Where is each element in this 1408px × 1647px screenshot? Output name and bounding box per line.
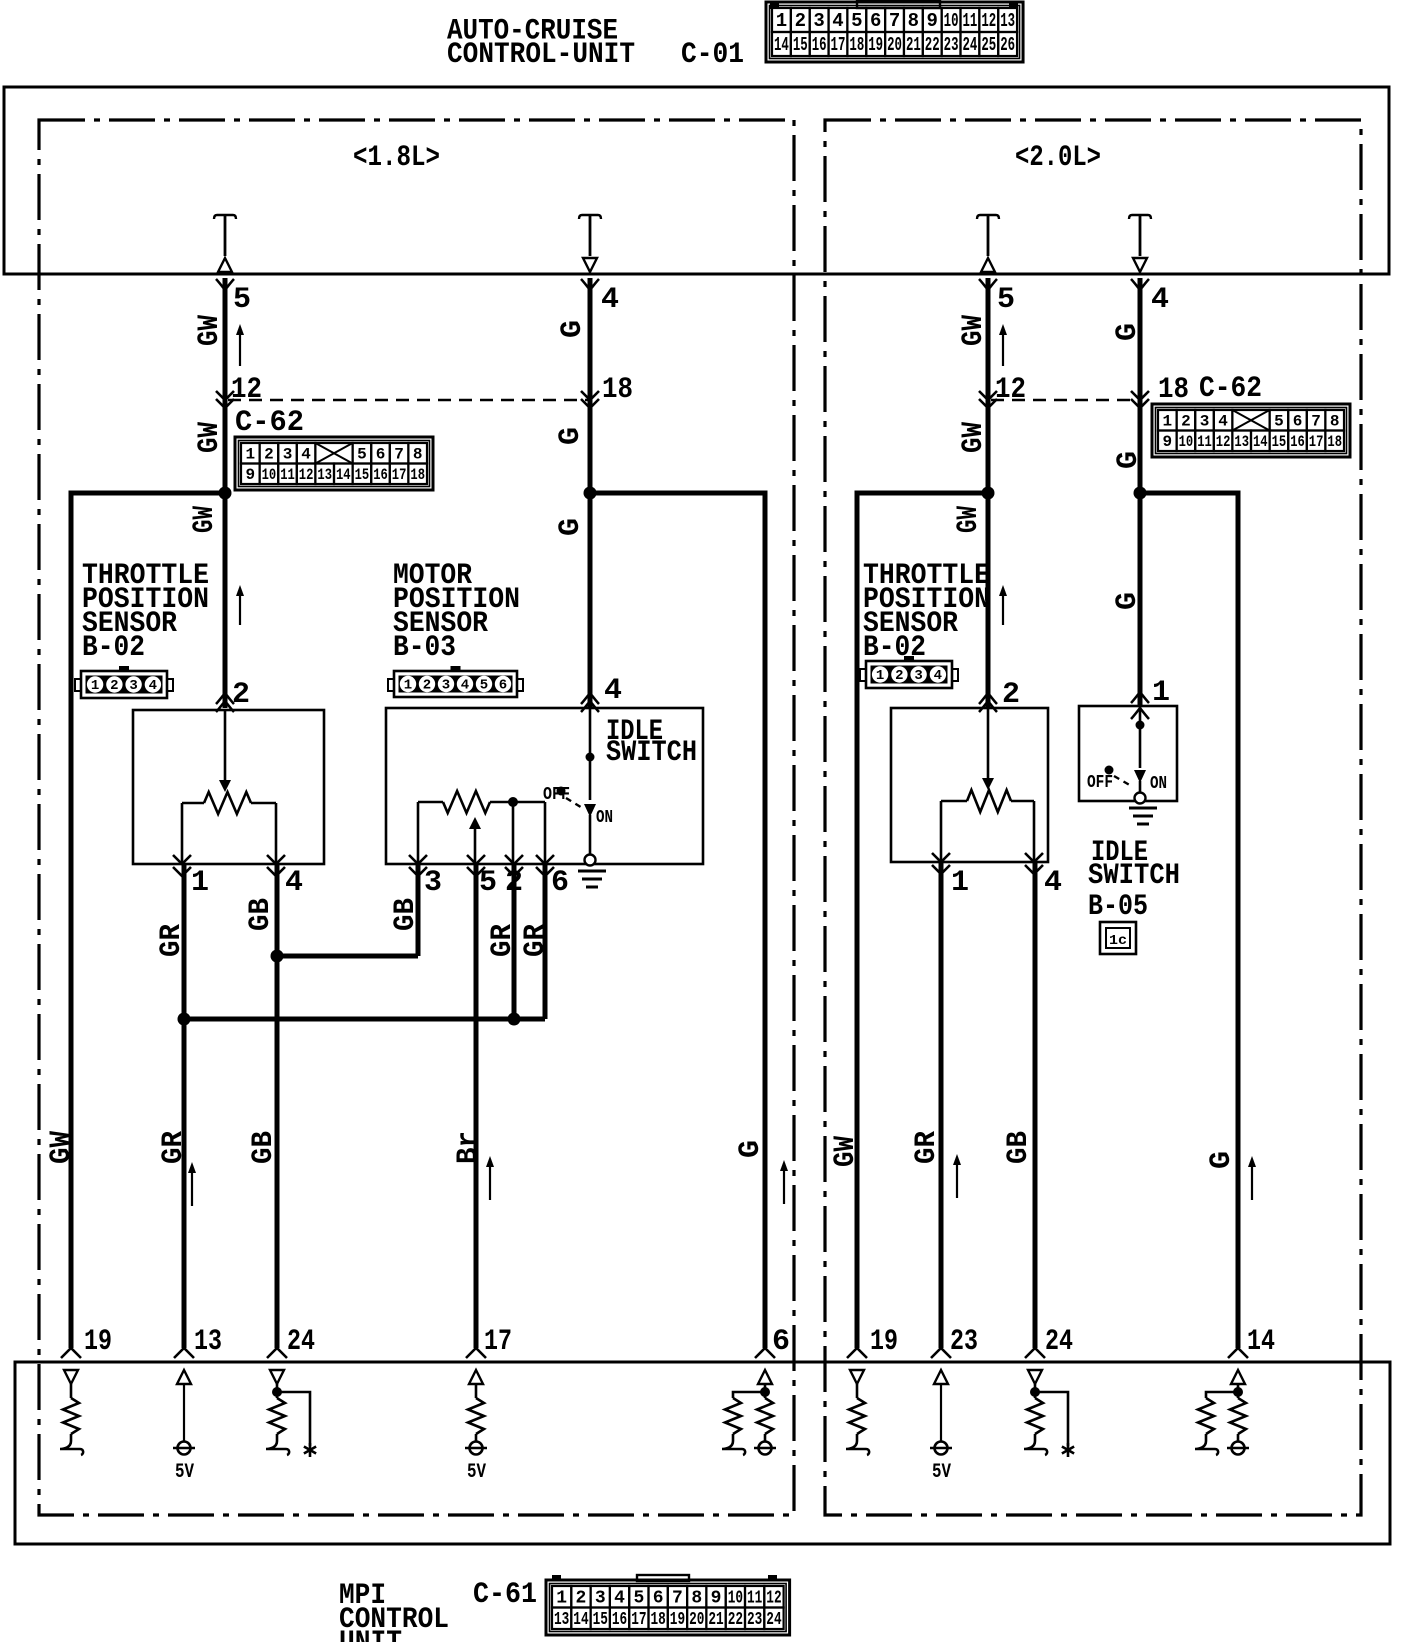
signal arrow up on G (2.0L) bbox=[1251, 1164, 1253, 1200]
svg-text:1: 1 bbox=[1162, 412, 1172, 430]
wiper arrow B-03 (1.8L) bbox=[469, 817, 481, 829]
svg-text:9: 9 bbox=[1162, 433, 1172, 451]
signal arrow up on GR (2.0L) bbox=[956, 1162, 958, 1198]
double chevron at C-62 pin12 (2.0L) bbox=[979, 391, 997, 400]
double chevron B-03 pin2 (1.8L) bbox=[505, 855, 523, 864]
svg-text:GW: GW bbox=[45, 1131, 79, 1164]
svg-text:GR: GR bbox=[157, 1131, 191, 1164]
MPI pin 24 with resistor and branch (2.0L) bbox=[1025, 1348, 1045, 1358]
idle switch lever dashes (2.0L) bbox=[1114, 776, 1133, 787]
svg-text:17: 17 bbox=[1309, 433, 1324, 451]
svg-text:GW: GW bbox=[957, 422, 991, 453]
svg-text:3: 3 bbox=[424, 866, 442, 900]
svg-text:6: 6 bbox=[1293, 412, 1303, 430]
svg-text:7: 7 bbox=[394, 445, 404, 463]
svg-text:5: 5 bbox=[633, 1589, 644, 1609]
svg-text:G: G bbox=[554, 427, 588, 445]
svg-text:19: 19 bbox=[84, 1325, 112, 1359]
svg-text:4: 4 bbox=[1218, 412, 1228, 430]
svg-text:B-05: B-05 bbox=[1088, 890, 1148, 924]
svg-text:GW: GW bbox=[188, 506, 222, 533]
connector B-02 pinout (1.8L) bbox=[81, 671, 167, 698]
svg-text:17: 17 bbox=[831, 34, 846, 56]
svg-text:5: 5 bbox=[479, 866, 497, 900]
double chevron B-03 pin5 (1.8L) bbox=[467, 855, 485, 864]
svg-text:3: 3 bbox=[442, 678, 450, 694]
svg-text:2: 2 bbox=[232, 678, 250, 712]
svg-text:6: 6 bbox=[870, 10, 881, 32]
svg-text:CONTROL-UNIT: CONTROL-UNIT bbox=[447, 38, 635, 72]
svg-text:21: 21 bbox=[906, 34, 921, 56]
connector C-61 pinout bbox=[546, 1580, 790, 1635]
wire GB pin4 to MPI pin24 (2.0L) bbox=[1033, 862, 1038, 1348]
svg-text:5: 5 bbox=[480, 678, 488, 694]
wire GW pin5 to C-62 (1.8L) bbox=[223, 278, 228, 400]
svg-text:26: 26 bbox=[1000, 34, 1015, 56]
svg-text:15: 15 bbox=[593, 1610, 608, 1630]
svg-text:1: 1 bbox=[951, 866, 969, 900]
double chevron B-02 pin2 (1.8L) bbox=[216, 693, 234, 704]
svg-text:G: G bbox=[1111, 323, 1145, 341]
double chevron at C-62 pin12 (1.8L) bbox=[216, 391, 234, 400]
auto-cruise control unit box bbox=[4, 87, 1389, 274]
double chevron B-03 pin4 (1.8L) bbox=[581, 693, 599, 704]
wire pot left lead (1.8L) bbox=[181, 803, 184, 864]
svg-text:GB: GB bbox=[389, 898, 423, 931]
svg-text:13: 13 bbox=[1000, 10, 1015, 32]
svg-text:7: 7 bbox=[1311, 412, 1321, 430]
wire G junction to B-03 pin4 (1.8L) bbox=[588, 493, 593, 708]
junction dot GW (1.8L) bbox=[219, 487, 232, 500]
wire G branch to MPI pin6 (1.8L) bbox=[590, 493, 765, 1348]
svg-text:4: 4 bbox=[601, 283, 619, 317]
svg-text:12: 12 bbox=[995, 373, 1026, 407]
svg-text:11: 11 bbox=[747, 1589, 762, 1609]
svg-text:17: 17 bbox=[392, 466, 407, 484]
double chevron at C-62 pin18 (1.8L) bbox=[581, 391, 599, 400]
svg-text:23: 23 bbox=[747, 1610, 762, 1630]
svg-text:15: 15 bbox=[793, 34, 808, 56]
MPI pin 24 with resistor and branch (1.8L) bbox=[267, 1348, 287, 1358]
connector C-62 pinout (2.0L) bbox=[1152, 404, 1350, 457]
svg-text:15: 15 bbox=[355, 466, 370, 484]
svg-text:18: 18 bbox=[602, 373, 633, 407]
svg-text:12: 12 bbox=[299, 466, 314, 484]
svg-text:2: 2 bbox=[110, 678, 118, 694]
svg-text:2: 2 bbox=[795, 10, 806, 32]
svg-text:GR: GR bbox=[486, 924, 520, 957]
svg-text:1: 1 bbox=[245, 445, 255, 463]
double chevron B-03 pin6 (1.8L) bbox=[536, 855, 554, 864]
connector B-05 pinout (2.0L) bbox=[1100, 922, 1136, 954]
svg-text:3: 3 bbox=[129, 678, 137, 694]
double chevron B-02 pin4 (2.0L) bbox=[1025, 853, 1043, 862]
wire GB junction to MPI pin24 (1.8L) bbox=[275, 956, 280, 1348]
svg-text:24: 24 bbox=[287, 1325, 315, 1359]
throttle position sensor box B-02 (1.8L) bbox=[133, 710, 324, 864]
signal arrow up on GR (1.8L) bbox=[191, 1170, 193, 1206]
svg-text:14: 14 bbox=[573, 1610, 588, 1630]
svg-text:20: 20 bbox=[887, 34, 902, 56]
idle switch OFF contact (1.8L) bbox=[557, 787, 566, 796]
svg-text:13: 13 bbox=[554, 1610, 569, 1630]
connector chevron pin5 (1.8L) bbox=[216, 279, 234, 290]
svg-text:4: 4 bbox=[301, 445, 311, 463]
svg-text:2: 2 bbox=[576, 1589, 587, 1609]
svg-text:GW: GW bbox=[193, 422, 227, 453]
svg-text:11: 11 bbox=[963, 10, 978, 32]
svg-text:10: 10 bbox=[728, 1589, 743, 1609]
svg-text:2: 2 bbox=[423, 678, 431, 694]
double chevron B-02 pin1 (1.8L) bbox=[173, 855, 191, 864]
wire Br pin5 to MPI pin17 (1.8L) bbox=[474, 864, 479, 1348]
svg-text:6: 6 bbox=[551, 866, 569, 900]
svg-text:16: 16 bbox=[812, 34, 827, 56]
junction dot pot pin2 (1.8L) bbox=[508, 797, 518, 807]
double chevron B-02 pin4 (1.8L) bbox=[267, 855, 285, 864]
svg-text:10: 10 bbox=[944, 10, 959, 32]
connector C-01 pinout bbox=[766, 2, 1023, 62]
signal arrow up on GW (1.8L) bbox=[239, 332, 241, 366]
connector B-02 pinout (2.0L) bbox=[866, 661, 952, 688]
idle switch wire to ground (2.0L) bbox=[1139, 781, 1142, 793]
svg-text:5: 5 bbox=[1274, 412, 1284, 430]
svg-text:GB: GB bbox=[244, 898, 278, 931]
svg-text:SWITCH: SWITCH bbox=[606, 736, 697, 770]
chassis ground idle switch (2.0L) bbox=[1129, 807, 1157, 810]
svg-text:B-03: B-03 bbox=[393, 631, 456, 665]
2.0L harness box bbox=[825, 120, 1361, 1515]
svg-text:23: 23 bbox=[950, 1325, 978, 1359]
svg-text:2: 2 bbox=[895, 668, 903, 684]
dashed connector line C-62 (2.0L) bbox=[991, 399, 1138, 402]
svg-text:GB: GB bbox=[247, 1131, 281, 1164]
svg-text:9: 9 bbox=[711, 1589, 722, 1609]
svg-text:5: 5 bbox=[997, 283, 1015, 317]
wire GB pin4 to junction (1.8L) bbox=[275, 864, 280, 956]
wire GR pin2 down (1.8L) bbox=[512, 864, 517, 1019]
svg-text:1: 1 bbox=[556, 1589, 567, 1609]
svg-text:18: 18 bbox=[410, 466, 425, 484]
idle switch wire upper (2.0L) bbox=[1139, 706, 1142, 768]
wire GW C-62 to junction (1.8L) bbox=[223, 400, 228, 493]
svg-text:4: 4 bbox=[614, 1589, 625, 1609]
svg-text:13: 13 bbox=[317, 466, 332, 484]
idle switch ON contact (1.8L) bbox=[584, 804, 596, 817]
svg-text:UNIT: UNIT bbox=[339, 1626, 402, 1642]
svg-text:3: 3 bbox=[914, 668, 922, 684]
svg-text:23: 23 bbox=[944, 34, 959, 56]
idle switch OFF contact (2.0L) bbox=[1105, 766, 1114, 775]
svg-text:OFF: OFF bbox=[1087, 773, 1113, 793]
svg-text:1c: 1c bbox=[1109, 933, 1127, 949]
connector chevron pin4 (2.0L) bbox=[1131, 279, 1149, 290]
svg-text:21: 21 bbox=[708, 1610, 723, 1630]
svg-text:G: G bbox=[556, 320, 590, 338]
svg-text:C-62: C-62 bbox=[1199, 372, 1262, 406]
svg-text:18: 18 bbox=[1158, 373, 1189, 407]
svg-text:9: 9 bbox=[927, 10, 938, 32]
wire GR pin1 to junction (1.8L) bbox=[182, 864, 187, 1019]
svg-text:4: 4 bbox=[934, 668, 942, 684]
terminal pin5 cruise unit (1.8L) bbox=[214, 215, 236, 219]
wire pot pin2 lead (1.8L) bbox=[512, 802, 515, 864]
svg-text:GW: GW bbox=[829, 1136, 863, 1167]
signal arrow up on G (1.8L) bbox=[783, 1168, 785, 1204]
MPI pin 17 with resistor to 5V (1.8L) bbox=[466, 1348, 486, 1358]
svg-text:17: 17 bbox=[484, 1325, 512, 1359]
svg-text:G: G bbox=[1111, 592, 1145, 610]
1.8L harness box bbox=[39, 120, 794, 1515]
svg-text:OFF: OFF bbox=[543, 785, 570, 805]
wire GW pin5 to C-62 (2.0L) bbox=[986, 278, 991, 400]
svg-text:10: 10 bbox=[262, 466, 277, 484]
svg-text:18: 18 bbox=[651, 1610, 666, 1630]
svg-text:4: 4 bbox=[832, 10, 843, 32]
double chevron B-02 pin1 (2.0L) bbox=[932, 853, 950, 862]
MPI pin 19 with pull-down resistor (1.8L) bbox=[61, 1348, 81, 1358]
signal arrow up on GW (2.0L) bbox=[1002, 332, 1004, 366]
svg-text:1: 1 bbox=[776, 10, 787, 32]
svg-text:14: 14 bbox=[1253, 433, 1268, 451]
idle switch wire to ground (1.8L) bbox=[589, 815, 592, 855]
svg-text:GR: GR bbox=[519, 924, 553, 957]
svg-text:8: 8 bbox=[691, 1589, 702, 1609]
svg-text:GW: GW bbox=[193, 315, 227, 346]
svg-text:G: G bbox=[734, 1140, 768, 1158]
svg-text:SWITCH: SWITCH bbox=[1088, 859, 1180, 893]
potentiometer B-03 (1.8L) bbox=[418, 801, 443, 804]
svg-text:1: 1 bbox=[404, 678, 412, 694]
svg-text:7: 7 bbox=[672, 1589, 683, 1609]
svg-text:8: 8 bbox=[908, 10, 919, 32]
svg-text:22: 22 bbox=[925, 34, 940, 56]
svg-text:GW: GW bbox=[952, 506, 986, 533]
svg-text:6: 6 bbox=[376, 445, 386, 463]
wiper wire B-02 (1.8L) bbox=[224, 710, 227, 782]
double chevron B-02 pin2 (2.0L) bbox=[979, 693, 997, 704]
double chevron B-03 pin3 (1.8L) bbox=[409, 855, 427, 864]
junction dot GW (2.0L) bbox=[982, 487, 995, 500]
terminal pin5 cruise unit (2.0L) bbox=[977, 215, 999, 219]
svg-text:12: 12 bbox=[766, 1589, 781, 1609]
svg-text:19: 19 bbox=[870, 1325, 898, 1359]
svg-text:15: 15 bbox=[1272, 433, 1287, 451]
junction dot G (2.0L) bbox=[1134, 487, 1147, 500]
svg-text:2: 2 bbox=[1181, 412, 1191, 430]
connector chevron pin4 (1.8L) bbox=[581, 279, 599, 290]
dashed connector line C-62 (1.8L) bbox=[228, 399, 588, 402]
wire GW junction to B-02 pin2 (2.0L) bbox=[986, 493, 991, 708]
MPI control unit box bbox=[15, 1362, 1390, 1544]
double chevron at C-62 pin18 (2.0L) bbox=[1131, 391, 1149, 400]
svg-text:GR: GR bbox=[155, 924, 189, 957]
svg-text:14: 14 bbox=[1247, 1325, 1275, 1359]
svg-text:2: 2 bbox=[264, 445, 274, 463]
wire GW branch to MPI pin19 (1.8L) bbox=[71, 493, 225, 1348]
svg-text:25: 25 bbox=[981, 34, 996, 56]
wire GW branch to MPI pin19 (2.0L) bbox=[857, 493, 988, 1348]
svg-text:C-01: C-01 bbox=[681, 38, 744, 72]
svg-text:16: 16 bbox=[373, 466, 388, 484]
svg-text:ON: ON bbox=[1150, 774, 1167, 794]
junction dot G (1.8L) bbox=[584, 487, 597, 500]
svg-text:ON: ON bbox=[596, 808, 613, 828]
svg-text:12: 12 bbox=[981, 10, 996, 32]
chevron inside B-05 (2.0L) bbox=[1131, 708, 1149, 719]
svg-text:13: 13 bbox=[194, 1325, 222, 1359]
svg-text:GW: GW bbox=[957, 315, 991, 346]
svg-text:19: 19 bbox=[868, 34, 883, 56]
svg-text:6: 6 bbox=[499, 678, 507, 694]
svg-text:<1.8L>: <1.8L> bbox=[353, 141, 440, 175]
svg-text:GR: GR bbox=[910, 1131, 944, 1164]
svg-text:1: 1 bbox=[91, 678, 99, 694]
svg-text:Br: Br bbox=[452, 1131, 486, 1164]
svg-text:11: 11 bbox=[280, 466, 295, 484]
svg-text:C-62: C-62 bbox=[235, 406, 304, 440]
svg-text:C-61: C-61 bbox=[473, 1578, 537, 1612]
idle switch box B-05 (2.0L) bbox=[1079, 706, 1177, 801]
signal arrow up on GW 2 (2.0L) bbox=[1002, 593, 1004, 625]
svg-text:8: 8 bbox=[413, 445, 423, 463]
svg-text:13: 13 bbox=[1234, 433, 1249, 451]
svg-text:12: 12 bbox=[231, 373, 262, 407]
svg-text:11: 11 bbox=[1197, 433, 1212, 451]
svg-text:1: 1 bbox=[876, 668, 884, 684]
idle switch wire upper (1.8L) bbox=[589, 708, 592, 800]
wire pot left lead (2.0L) bbox=[940, 801, 943, 862]
svg-text:<2.0L>: <2.0L> bbox=[1015, 141, 1101, 175]
svg-text:3: 3 bbox=[813, 10, 824, 32]
wire G C-62 to junction (1.8L) bbox=[588, 400, 593, 493]
wire GW junction to B-02 pin2 (1.8L) bbox=[223, 493, 228, 708]
svg-text:4: 4 bbox=[1151, 283, 1169, 317]
idle switch ON contact (2.0L) bbox=[1134, 770, 1146, 783]
svg-text:5: 5 bbox=[233, 283, 251, 317]
svg-text:18: 18 bbox=[1327, 433, 1342, 451]
wire G pin4 to C-62 (1.8L) bbox=[588, 278, 593, 400]
svg-text:G: G bbox=[1205, 1151, 1239, 1169]
svg-text:14: 14 bbox=[774, 34, 789, 56]
svg-text:3: 3 bbox=[1200, 412, 1210, 430]
svg-text:4: 4 bbox=[149, 678, 157, 694]
wire GW C-62 to junction (2.0L) bbox=[986, 400, 991, 493]
idle switch lever dashes (1.8L) bbox=[566, 798, 584, 809]
svg-text:18: 18 bbox=[849, 34, 864, 56]
wire GB pin3 down (1.8L) bbox=[416, 864, 421, 956]
svg-text:19: 19 bbox=[670, 1610, 685, 1630]
wire pot right lead (2.0L) bbox=[1033, 801, 1036, 862]
wire G junction to B-05 pin1 (2.0L) bbox=[1138, 493, 1143, 706]
junction GB horizontal (1.8L) bbox=[277, 954, 418, 959]
potentiometer B-02 (1.8L) bbox=[182, 802, 204, 805]
svg-text:17: 17 bbox=[631, 1610, 646, 1630]
chassis ground idle switch (1.8L) bbox=[578, 870, 606, 873]
svg-text:12: 12 bbox=[1216, 433, 1231, 451]
signal arrow up on GW 2 (1.8L) bbox=[239, 593, 241, 625]
svg-text:4: 4 bbox=[1044, 866, 1062, 900]
junction GR horizontal (1.8L) bbox=[184, 1017, 545, 1022]
wire pot pin6 lead (1.8L) bbox=[544, 802, 547, 864]
MPI pin 23 with 5V supply (2.0L) bbox=[931, 1348, 951, 1358]
svg-text:G: G bbox=[1112, 451, 1146, 469]
connector B-03 pinout (1.8L) bbox=[394, 671, 517, 697]
MPI pin 19 with pull-down resistor (2.0L) bbox=[847, 1348, 867, 1358]
svg-text:B-02: B-02 bbox=[82, 631, 145, 665]
svg-text:GB: GB bbox=[1002, 1131, 1036, 1164]
svg-text:4: 4 bbox=[285, 866, 303, 900]
svg-text:3: 3 bbox=[595, 1589, 606, 1609]
wire pot pin3 lead (1.8L) bbox=[417, 802, 420, 864]
wire GR junction to MPI pin13 (1.8L) bbox=[182, 1019, 187, 1348]
svg-text:4: 4 bbox=[461, 678, 469, 694]
wire G branch to MPI pin14 (2.0L) bbox=[1140, 493, 1238, 1348]
svg-text:24: 24 bbox=[1045, 1325, 1073, 1359]
svg-text:5V: 5V bbox=[467, 1461, 486, 1484]
wiper wire B-02 (2.0L) bbox=[987, 708, 990, 780]
throttle position sensor box B-02 (2.0L) bbox=[891, 708, 1048, 862]
wire G pin4 to C-62 (2.0L) bbox=[1138, 278, 1143, 400]
connector C-62 pinout (1.8L) bbox=[235, 437, 433, 490]
svg-text:20: 20 bbox=[689, 1610, 704, 1630]
svg-text:9: 9 bbox=[245, 466, 255, 484]
MPI pin 13 with 5V supply (1.8L) bbox=[174, 1348, 194, 1358]
svg-text:3: 3 bbox=[283, 445, 293, 463]
svg-text:10: 10 bbox=[1179, 433, 1194, 451]
svg-text:1: 1 bbox=[191, 866, 209, 900]
wire GR pin1 to MPI pin23 (2.0L) bbox=[939, 862, 944, 1348]
signal arrow up on Br (1.8L) bbox=[489, 1164, 491, 1200]
wire GR pin6 down (1.8L) bbox=[543, 864, 548, 1019]
svg-text:6: 6 bbox=[653, 1589, 664, 1609]
svg-text:5: 5 bbox=[851, 10, 862, 32]
svg-text:24: 24 bbox=[963, 34, 978, 56]
svg-text:14: 14 bbox=[336, 466, 351, 484]
connector chevron pin5 (2.0L) bbox=[979, 279, 997, 290]
svg-text:16: 16 bbox=[1290, 433, 1305, 451]
svg-text:G: G bbox=[554, 518, 588, 536]
terminal pin4 cruise unit (2.0L) bbox=[1129, 215, 1151, 219]
terminal pin4 cruise unit (1.8L) bbox=[579, 215, 601, 219]
svg-text:16: 16 bbox=[612, 1610, 627, 1630]
svg-text:4: 4 bbox=[604, 674, 622, 708]
double chevron B-05 pin1 (2.0L) bbox=[1131, 692, 1149, 703]
MPI pin 6 dual resistor with 5V (1.8L) bbox=[755, 1348, 775, 1358]
svg-text:5: 5 bbox=[357, 445, 367, 463]
potentiometer B-02 (2.0L) bbox=[941, 800, 967, 803]
svg-text:8: 8 bbox=[1330, 412, 1340, 430]
wire pot right lead (1.8L) bbox=[275, 803, 278, 864]
svg-text:7: 7 bbox=[889, 10, 900, 32]
svg-text:5V: 5V bbox=[175, 1461, 194, 1484]
svg-text:24: 24 bbox=[766, 1610, 781, 1630]
motor position sensor box B-03 (1.8L) bbox=[386, 708, 703, 864]
svg-text:6: 6 bbox=[772, 1325, 790, 1359]
svg-text:22: 22 bbox=[728, 1610, 743, 1630]
svg-text:5V: 5V bbox=[932, 1461, 951, 1484]
wire G C-62 to junction (2.0L) bbox=[1138, 400, 1143, 493]
MPI pin 14 dual resistor with 5V (2.0L) bbox=[1228, 1348, 1248, 1358]
